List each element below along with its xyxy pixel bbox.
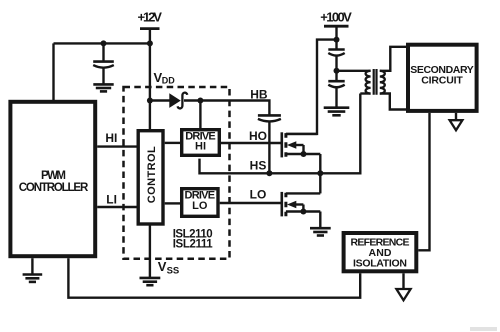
ISL2110 ISL2111 part labels — [173, 228, 214, 250]
SECONDARY CIRCUIT label — [410, 64, 474, 87]
node junction diode cathode / HB rail — [197, 98, 203, 104]
svg-text:HS: HS — [250, 159, 267, 173]
REFERENCE AND ISOLATION block — [344, 233, 417, 271]
transformer T1 core — [374, 69, 377, 95]
ground isolated arrow under REFERENCE — [396, 273, 410, 300]
capacitor C2 bootstrap — [258, 115, 281, 173]
svg-text:LO: LO — [192, 200, 208, 212]
SECONDARY CIRCUIT block — [408, 45, 477, 111]
wire VDD vertical from +12V to CONTROL — [149, 30, 151, 130]
svg-text:PWM: PWM — [41, 170, 66, 182]
wire Q1 drain to +100V rail — [286, 40, 337, 134]
node junction 12V-cap — [101, 40, 107, 46]
svg-text:CONTROLLER: CONTROLLER — [19, 182, 89, 194]
wire HS rail — [200, 94, 361, 174]
transistor Q1 high-side MOSFET — [282, 132, 321, 173]
wire secondary bottom lead — [380, 94, 406, 110]
svg-text:ISL2111: ISL2111 — [173, 239, 214, 251]
wire vertical to PWM top — [52, 43, 54, 100]
+12V supply bar — [140, 27, 160, 30]
svg-text:+12V: +12V — [137, 10, 162, 25]
svg-text:ISOLATION: ISOLATION — [353, 258, 407, 270]
wire CONTROL to DRIVE HI — [165, 142, 180, 144]
wire HI — [97, 145, 138, 147]
transformer T1 primary winding — [366, 71, 371, 94]
svg-text:+100V: +100V — [320, 9, 352, 24]
svg-text:DD: DD — [162, 76, 175, 86]
wire VSS — [149, 224, 151, 277]
node junction Q1 source / Q2 drain — [317, 170, 323, 176]
wire cap midpoint to transformer primary — [337, 70, 371, 72]
dashed boundary ISL2110/ISL2111 — [124, 87, 230, 259]
node junction diode anode — [147, 98, 153, 104]
transistor Q2 low-side MOSFET — [282, 173, 321, 228]
svg-text:V: V — [158, 259, 167, 274]
CONTROL block — [138, 131, 163, 224]
PWM controller label — [19, 170, 89, 194]
wire secondary to reference — [418, 113, 429, 250]
wire HB rail to bootstrap cap — [184, 101, 269, 116]
DRIVE LO label — [185, 189, 216, 212]
node junction 100V rail — [334, 37, 340, 43]
REFERENCE AND ISOLATION label — [351, 237, 410, 270]
svg-text:SS: SS — [167, 266, 180, 277]
wire +100V vertical — [335, 27, 337, 49]
wire VDD feed to DRIVE HI — [199, 101, 201, 129]
ground Q2 source — [310, 228, 331, 235]
ground C4 — [324, 108, 350, 116]
transformer T1 secondary winding — [380, 71, 385, 94]
+100V supply bar — [324, 25, 349, 28]
VSS label — [158, 259, 179, 277]
diode D1 anode wire — [150, 99, 170, 101]
ground isolated arrow under SECONDARY — [450, 113, 463, 130]
svg-text:LI: LI — [106, 192, 117, 206]
VDD label — [154, 70, 176, 86]
svg-text:CONTROL: CONTROL — [146, 146, 158, 203]
diode D1 schottky — [170, 93, 187, 109]
DRIVE HI block — [182, 130, 220, 156]
wire horizontal 12V branch — [54, 42, 150, 44]
wire LI — [97, 206, 138, 208]
wire HO — [221, 142, 281, 144]
node junction 12V rail — [147, 40, 153, 46]
watermark — [470, 327, 497, 331]
ground PWM controller — [23, 258, 43, 282]
wire secondary top lead — [380, 47, 406, 71]
capacitor C3 — [328, 50, 344, 71]
DRIVE LO block — [182, 189, 218, 217]
svg-text:CIRCUIT: CIRCUIT — [421, 75, 463, 87]
svg-text:HI: HI — [105, 131, 117, 145]
wire CONTROL to DRIVE LO — [165, 202, 180, 204]
node junction cap-HS — [266, 170, 272, 176]
svg-text:HO: HO — [249, 129, 267, 143]
wire LO — [220, 202, 282, 204]
svg-text:LO: LO — [250, 188, 267, 202]
svg-text:HB: HB — [250, 88, 268, 102]
PWM controller block — [10, 102, 95, 256]
node junction cap midpoint — [334, 68, 340, 74]
wire bottom return PWM to REFERENCE — [68, 258, 360, 298]
capacitor C1 bypass — [93, 43, 114, 83]
svg-text:HI: HI — [195, 141, 206, 153]
capacitor C4 — [328, 71, 344, 107]
ground VSS — [140, 278, 161, 285]
ground C1 — [93, 84, 113, 91]
wire transformer primary return — [360, 92, 370, 94]
DRIVE HI label — [185, 131, 216, 153]
